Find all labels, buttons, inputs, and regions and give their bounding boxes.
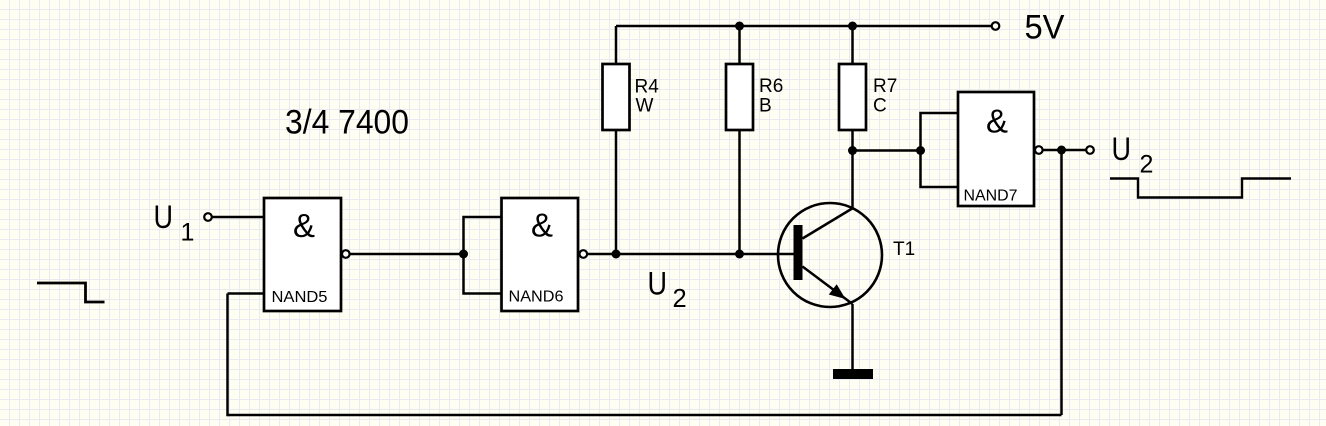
node U1 label <box>154 199 195 247</box>
wire NAND7 output to output terminal <box>1043 149 1086 152</box>
NAND7 output bubble <box>1035 146 1043 154</box>
svg-text:&: & <box>293 207 315 244</box>
node U2 label (collector node) <box>648 266 687 314</box>
ground <box>833 369 873 379</box>
junction on NAND7 input loop <box>916 146 925 155</box>
svg-text:U: U <box>648 266 668 302</box>
junction R6 branch on base wire <box>735 250 744 259</box>
wire R4 branch vertical <box>615 26 618 254</box>
svg-text:&: & <box>531 207 553 244</box>
junction below R7 <box>848 146 857 155</box>
svg-text:R4: R4 <box>635 77 660 98</box>
resistor R6 <box>726 64 753 130</box>
junction on output wire <box>1057 146 1066 155</box>
svg-text:NAND7: NAND7 <box>964 188 1018 205</box>
label R4 value W <box>635 77 660 117</box>
svg-text:3/4 7400: 3/4 7400 <box>285 104 409 142</box>
input terminal U1 <box>204 213 212 221</box>
wire input terminal to NAND5 input <box>213 216 265 219</box>
svg-text:U: U <box>1112 131 1132 167</box>
svg-text:2: 2 <box>1140 151 1154 179</box>
NAND5 output bubble <box>342 250 350 258</box>
input waveform U1 <box>37 283 105 302</box>
junction on NAND6 input loop <box>459 250 468 259</box>
junction R4 branch on base wire <box>612 250 621 259</box>
nand gate NAND6 <box>502 198 579 311</box>
wire feedback left vertical <box>226 294 229 417</box>
resistor R7 <box>839 64 866 130</box>
svg-text:NAND5: NAND5 <box>272 289 328 306</box>
wire feedback vertical from output junction <box>1060 150 1063 415</box>
junction R6 on top rail <box>735 22 744 31</box>
wire R7 branch vertical to collector <box>851 26 854 208</box>
svg-text:&: & <box>986 103 1008 140</box>
output terminal <box>1086 146 1094 154</box>
svg-text:T1: T1 <box>893 239 915 260</box>
label R6 value B <box>759 76 783 117</box>
wire 5V top rail <box>616 25 992 28</box>
label R7 value C <box>873 76 897 117</box>
transistor T1 <box>778 203 882 307</box>
wire R7 junction to NAND7 input loop <box>853 149 921 152</box>
svg-text:1: 1 <box>181 219 195 247</box>
svg-text:C: C <box>873 96 887 117</box>
wire R6 branch vertical <box>738 26 741 254</box>
svg-text:B: B <box>759 96 772 117</box>
svg-text:5V: 5V <box>1025 9 1065 47</box>
junction R7 on top rail <box>848 22 857 31</box>
svg-text:2: 2 <box>673 285 687 313</box>
wire NAND6 output to transistor base <box>588 253 794 256</box>
output waveform U2 <box>1110 179 1291 198</box>
wire emitter to ground <box>851 304 854 369</box>
wire NAND5 output to NAND6 inputs <box>350 253 464 256</box>
wire feedback to NAND5 lower input <box>228 292 265 295</box>
svg-text:R6: R6 <box>759 76 783 97</box>
nand gate NAND7 <box>958 92 1034 206</box>
NAND6 input tie loop <box>464 217 503 294</box>
NAND6 output bubble <box>580 250 588 258</box>
node U2 output label <box>1112 131 1154 179</box>
svg-text:W: W <box>636 96 654 117</box>
svg-text:R7: R7 <box>873 76 897 97</box>
5V supply terminal <box>992 22 1000 30</box>
resistor R4 <box>603 64 630 130</box>
svg-text:NAND6: NAND6 <box>509 289 564 306</box>
NAND7 input tie loop <box>921 113 959 187</box>
wire feedback bottom horizontal <box>228 414 1062 417</box>
nand gate NAND5 <box>264 198 341 311</box>
svg-text:U: U <box>154 199 174 235</box>
